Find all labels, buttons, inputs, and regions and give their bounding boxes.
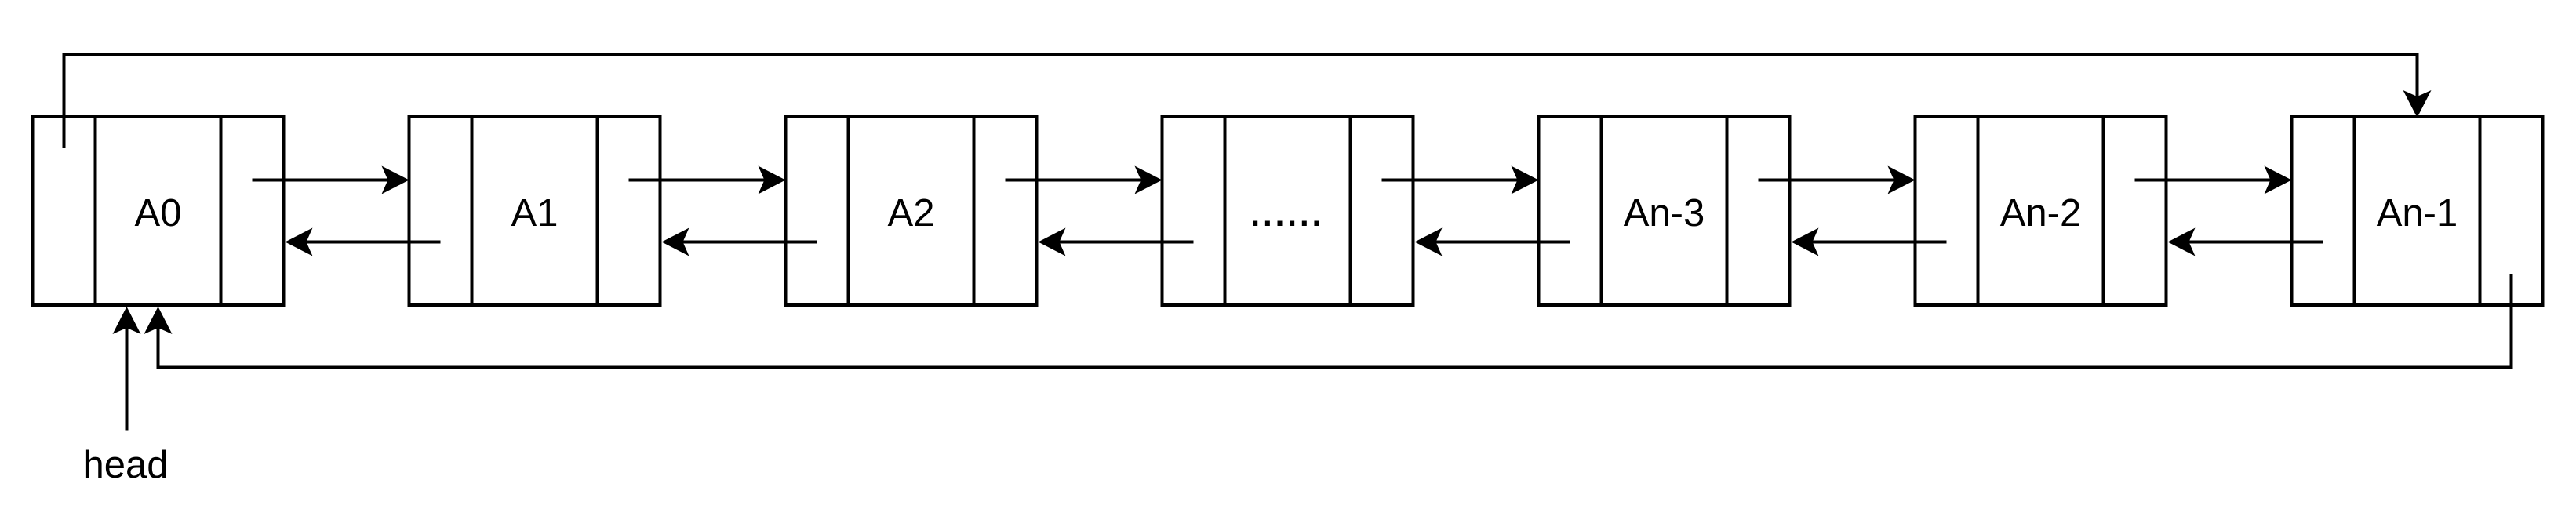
svg-text:An-3: An-3 (1624, 192, 1705, 234)
svg-text:A1: A1 (511, 192, 558, 234)
svg-text:An-1: An-1 (2377, 192, 2458, 234)
svg-text:An-2: An-2 (2000, 192, 2082, 234)
svg-text:A2: A2 (888, 192, 935, 234)
svg-text:head: head (82, 444, 168, 486)
svg-text:A0: A0 (135, 192, 182, 234)
